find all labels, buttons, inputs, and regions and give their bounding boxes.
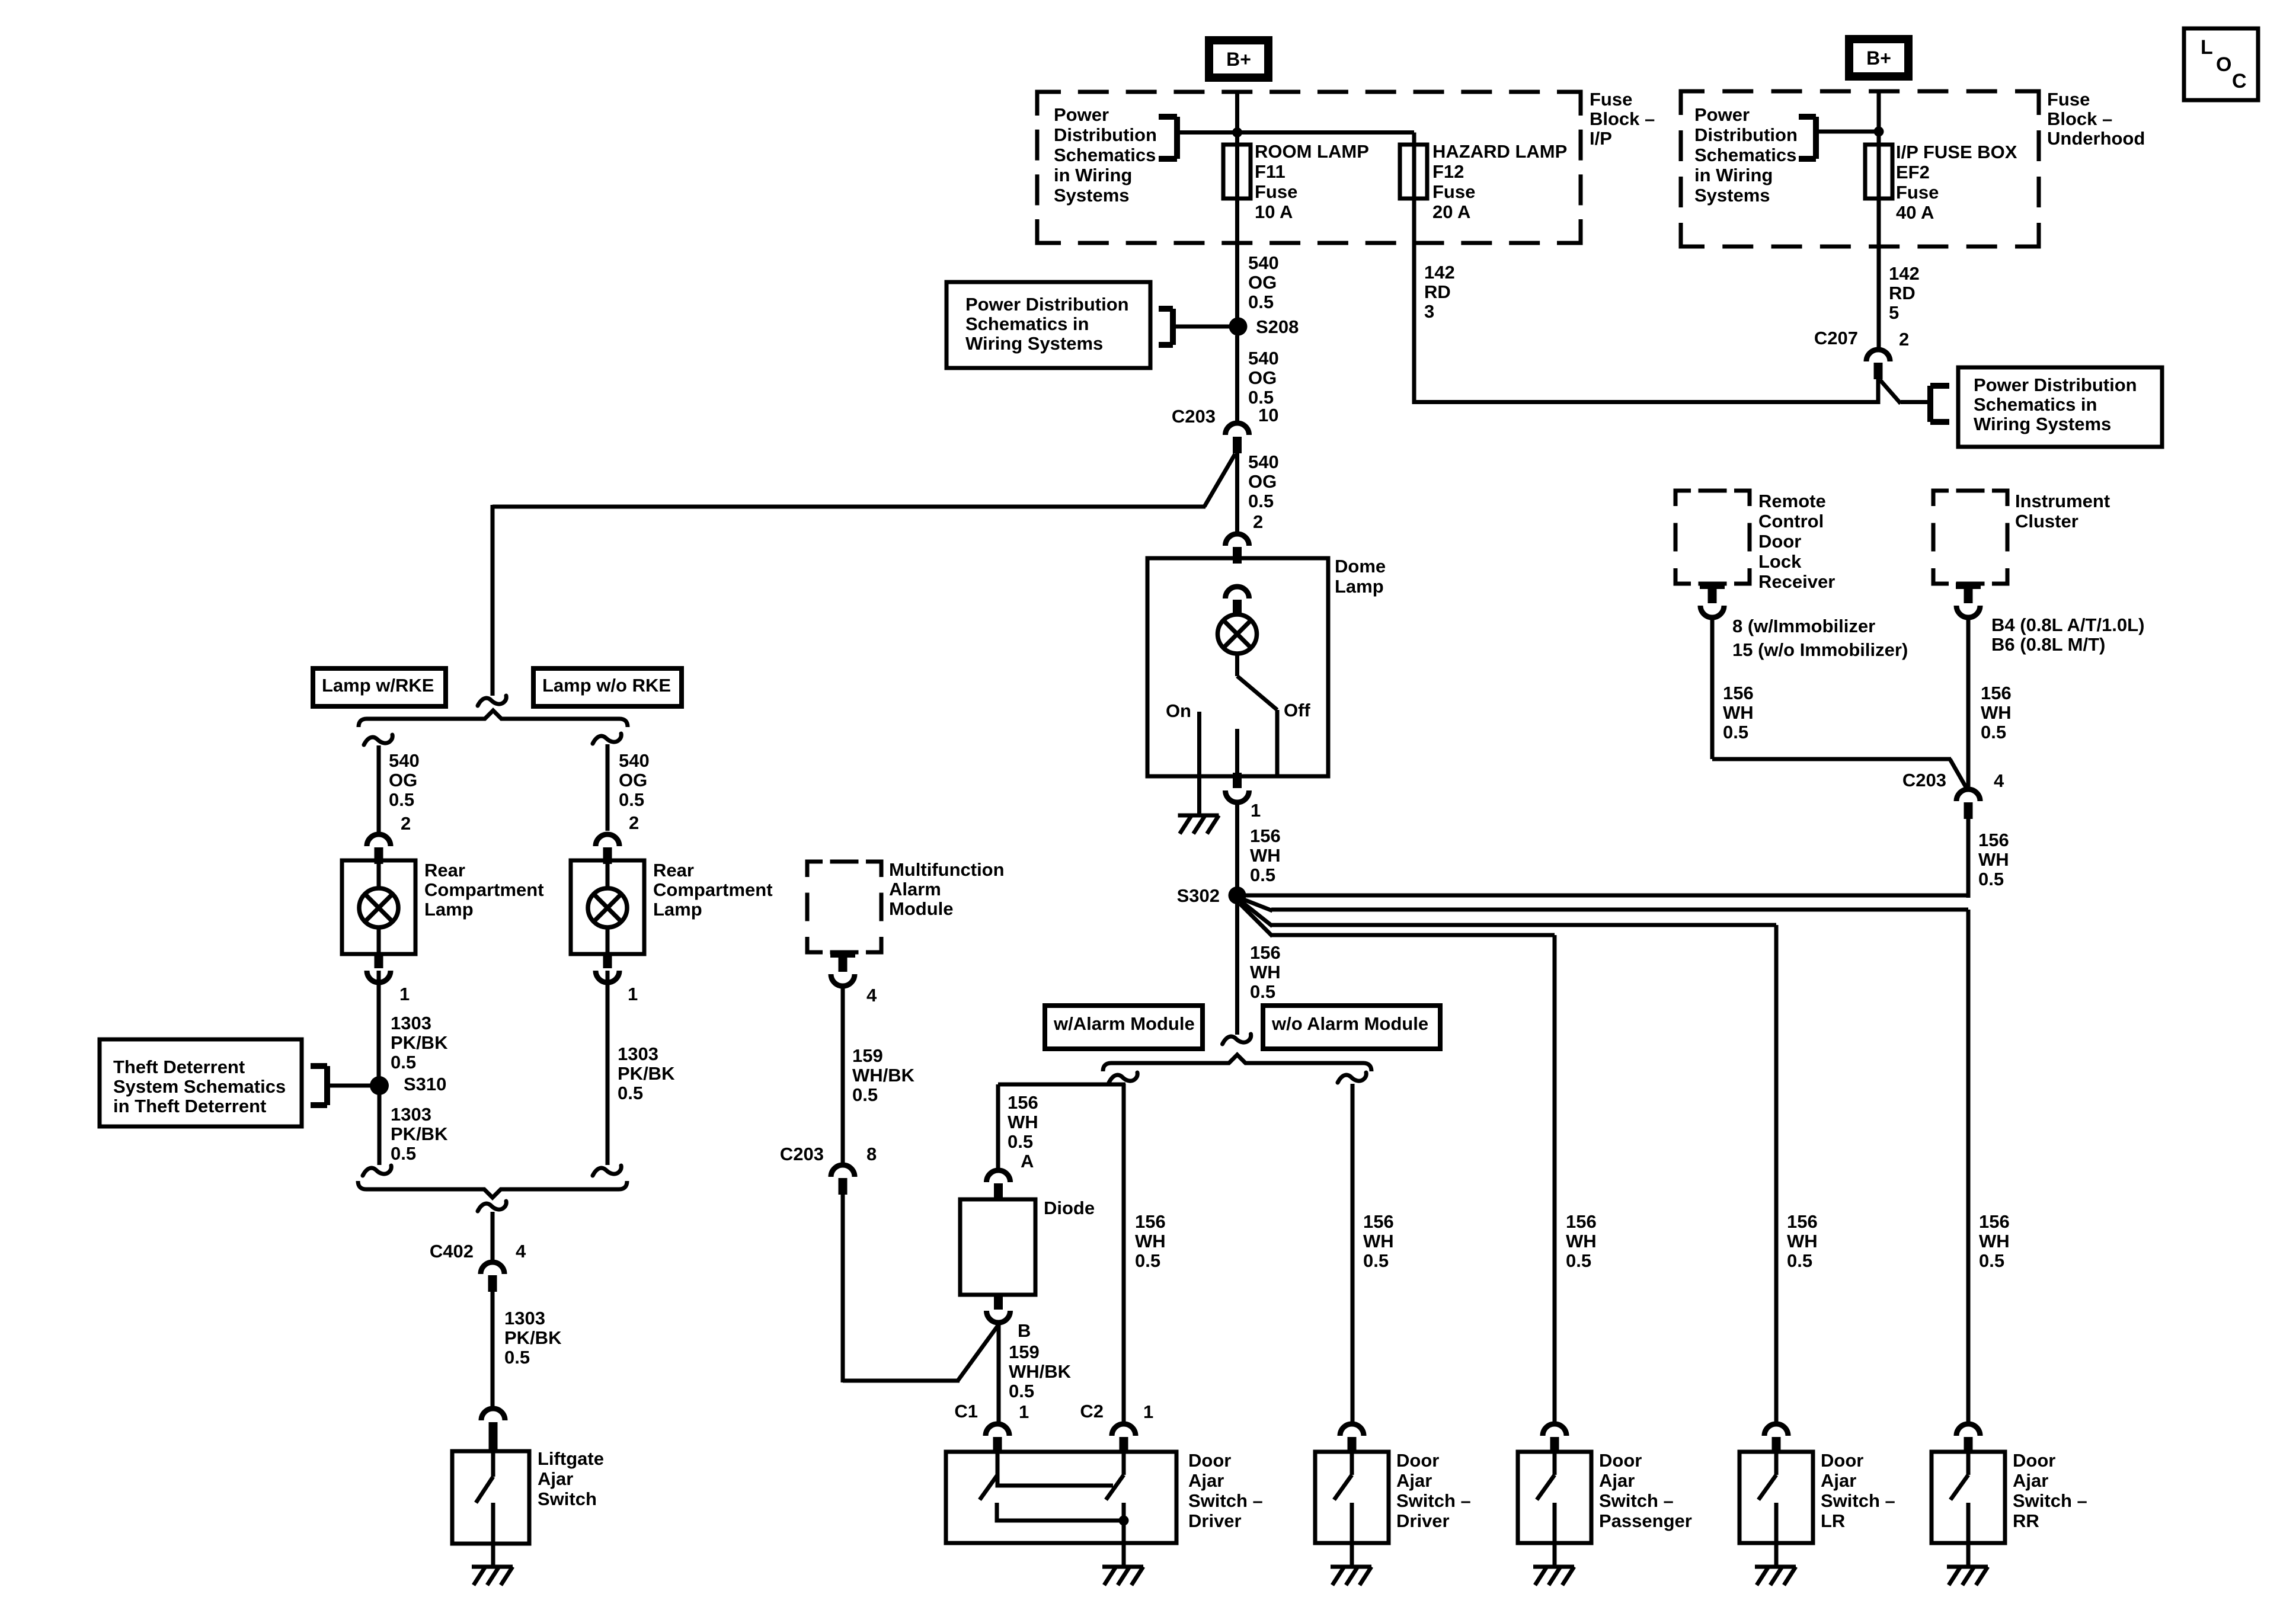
svg-text:On: On xyxy=(1166,700,1191,721)
svg-text:C2: C2 xyxy=(1080,1401,1104,1422)
option split (liftgate feed) xyxy=(478,1201,506,1211)
svg-text:0.5: 0.5 xyxy=(1009,1381,1034,1401)
svg-text:Switch –: Switch – xyxy=(1396,1490,1471,1511)
door ajar switch - passenger xyxy=(1518,1450,1692,1543)
svg-text:156: 156 xyxy=(1135,1211,1166,1232)
label Fuse Block - Underhood xyxy=(2047,89,2145,149)
connector dome lamp pin 1 xyxy=(1226,773,1261,821)
svg-text:Switch: Switch xyxy=(538,1489,597,1509)
dome lamp box xyxy=(1147,556,1386,776)
svg-text:WH: WH xyxy=(1981,702,2012,723)
svg-text:WH: WH xyxy=(1250,845,1281,866)
svg-text:WH: WH xyxy=(1978,849,2009,870)
svg-text:Cluster: Cluster xyxy=(2015,511,2078,532)
svg-text:B+: B+ xyxy=(1226,49,1251,70)
svg-text:159: 159 xyxy=(852,1045,883,1066)
option split (w/RKE leg) xyxy=(364,735,392,745)
svg-text:S208: S208 xyxy=(1256,316,1299,337)
svg-text:RD: RD xyxy=(1424,281,1451,302)
wire 540 OG 0.5 (w/o RKE lamp) xyxy=(607,744,650,833)
connector C203 pin 4 xyxy=(1902,770,2004,819)
note: power distribution schematics (underhood) xyxy=(1694,104,1816,206)
svg-text:0.5: 0.5 xyxy=(1008,1131,1033,1152)
door ajar switch - RR xyxy=(1932,1450,2087,1543)
wire to C402 xyxy=(491,1212,495,1261)
svg-text:1: 1 xyxy=(1143,1401,1153,1422)
ground (driver (w/o alarm)) xyxy=(1331,1543,1371,1585)
connector rear lamp 1 pin 2 xyxy=(367,834,391,864)
wire 1303 PK/BK 0.5 (lamp2 down) xyxy=(607,971,675,1165)
LOC legend box xyxy=(2184,28,2258,100)
connector IC pin B4/B6 xyxy=(1956,582,2144,655)
svg-text:WH: WH xyxy=(1979,1231,2010,1251)
svg-text:159: 159 xyxy=(1009,1342,1040,1362)
wire 156 WH 0.5 (RCDLR to C203) xyxy=(1712,620,1966,788)
svg-text:OG: OG xyxy=(1248,471,1277,492)
svg-text:0.5: 0.5 xyxy=(1248,491,1274,511)
svg-text:Lamp w/o RKE: Lamp w/o RKE xyxy=(542,675,671,696)
svg-text:Control: Control xyxy=(1758,511,1824,532)
svg-text:Fuse: Fuse xyxy=(1590,89,1632,110)
ground (liftgate switch) xyxy=(472,1544,513,1585)
door ajar switch - driver (w/o alarm) xyxy=(1315,1450,1471,1543)
power symbol B+ (fuse block I/P feed) xyxy=(1209,40,1268,78)
svg-text:Door: Door xyxy=(1396,1450,1439,1471)
svg-text:Driver: Driver xyxy=(1396,1510,1450,1531)
svg-text:0.5: 0.5 xyxy=(1981,722,2006,742)
svg-text:Schematics: Schematics xyxy=(1054,145,1156,165)
option split symbol (alarm) xyxy=(1223,1034,1251,1044)
power symbol B+ (underhood feed) xyxy=(1849,39,1908,76)
svg-text:C203: C203 xyxy=(1902,770,1946,790)
svg-text:B4 (0.8L A/T/1.0L): B4 (0.8L A/T/1.0L) xyxy=(1991,614,2144,635)
svg-text:2: 2 xyxy=(401,813,411,834)
svg-text:C402: C402 xyxy=(430,1241,474,1262)
splice S208 xyxy=(1229,316,1299,337)
svg-text:Systems: Systems xyxy=(1694,185,1770,206)
brace liftgate join xyxy=(358,1181,627,1198)
svg-text:RD: RD xyxy=(1889,283,1916,303)
note: power distribution schematics (I/P fuse block) xyxy=(1054,104,1177,206)
svg-text:in Theft Deterrent: in Theft Deterrent xyxy=(113,1096,266,1116)
svg-text:4: 4 xyxy=(866,985,877,1006)
svg-text:A: A xyxy=(1021,1151,1034,1172)
wire w/o alarm leg to driver switch (156 WH 0.5) xyxy=(1352,1084,1394,1423)
svg-text:1303: 1303 xyxy=(504,1308,545,1329)
svg-text:1: 1 xyxy=(399,984,410,1004)
svg-text:Power Distribution: Power Distribution xyxy=(1974,375,2137,395)
svg-text:Block –: Block – xyxy=(1590,108,1655,129)
svg-text:Switch –: Switch – xyxy=(1188,1490,1263,1511)
svg-text:0.5: 0.5 xyxy=(1250,981,1275,1002)
svg-text:Instrument: Instrument xyxy=(2015,491,2110,511)
svg-text:Dome: Dome xyxy=(1335,556,1386,577)
svg-text:HAZARD LAMP: HAZARD LAMP xyxy=(1432,141,1567,162)
diode xyxy=(960,1198,1095,1295)
svg-text:540: 540 xyxy=(1248,252,1279,273)
svg-text:156: 156 xyxy=(1566,1211,1597,1232)
svg-text:2: 2 xyxy=(629,812,639,833)
svg-text:156: 156 xyxy=(1723,683,1754,703)
svg-text:Switch –: Switch – xyxy=(1599,1490,1674,1511)
svg-text:156: 156 xyxy=(1250,942,1281,963)
fuse F11 ROOM LAMP 10A xyxy=(1223,141,1369,222)
svg-text:0.5: 0.5 xyxy=(1787,1250,1812,1271)
svg-text:1303: 1303 xyxy=(391,1013,431,1033)
svg-text:1303: 1303 xyxy=(391,1104,431,1125)
connector C402 pin 4 xyxy=(430,1241,526,1292)
svg-text:15 (w/o Immobilizer): 15 (w/o Immobilizer) xyxy=(1732,639,1908,660)
svg-text:WH: WH xyxy=(1363,1231,1394,1251)
svg-text:40 A: 40 A xyxy=(1896,202,1934,223)
svg-text:0.5: 0.5 xyxy=(1979,1250,2004,1271)
svg-text:0.5: 0.5 xyxy=(1363,1250,1389,1271)
svg-text:Ajar: Ajar xyxy=(538,1468,573,1489)
svg-text:OG: OG xyxy=(1248,367,1277,388)
svg-text:Lamp: Lamp xyxy=(1335,576,1384,597)
svg-text:2: 2 xyxy=(1899,329,1909,350)
connector rear lamp 2 pin 2 xyxy=(596,834,619,864)
svg-text:3: 3 xyxy=(1424,301,1434,322)
svg-text:OG: OG xyxy=(619,770,647,790)
svg-text:WH/BK: WH/BK xyxy=(852,1065,915,1086)
svg-text:Receiver: Receiver xyxy=(1758,571,1835,592)
svg-text:Liftgate: Liftgate xyxy=(538,1448,604,1469)
svg-text:Wiring Systems: Wiring Systems xyxy=(965,333,1103,354)
wire 159 WH/BK 0.5 (diode B to C1) xyxy=(999,1323,1072,1423)
svg-text:Distribution: Distribution xyxy=(1054,124,1157,145)
svg-text:Ajar: Ajar xyxy=(2013,1470,2048,1491)
wire 156 WH 0.5 (IC to C203) xyxy=(1968,620,2012,789)
connector passenger xyxy=(1543,1424,1566,1454)
ground (LR) xyxy=(1755,1543,1796,1585)
svg-text:Alarm: Alarm xyxy=(889,879,941,900)
ground (dome lamp On) xyxy=(1178,815,1219,834)
svg-text:WH: WH xyxy=(1008,1112,1038,1132)
connector LR xyxy=(1764,1424,1788,1454)
connector rear lamp 1 pin 1 xyxy=(367,953,410,1004)
connector rear lamp 2 pin 1 xyxy=(596,953,638,1004)
svg-text:Schematics in: Schematics in xyxy=(1974,394,2097,415)
wire 540 OG 0.5 (F11 to S208) xyxy=(1237,199,1279,318)
svg-text:WH: WH xyxy=(1723,702,1754,723)
svg-text:0.5: 0.5 xyxy=(1566,1250,1591,1271)
svg-text:1303: 1303 xyxy=(618,1044,658,1064)
svg-text:540: 540 xyxy=(619,750,650,771)
note: power distribution schematics (S208) xyxy=(946,282,1231,368)
ground (driver switch) xyxy=(1102,1543,1143,1585)
svg-text:Switch –: Switch – xyxy=(2013,1490,2087,1511)
multifunction alarm module dashed box xyxy=(807,859,1005,952)
label Lamp w/o RKE xyxy=(533,668,682,706)
svg-text:Switch –: Switch – xyxy=(1821,1490,1895,1511)
svg-text:Lock: Lock xyxy=(1758,551,1802,572)
svg-text:0.5: 0.5 xyxy=(1248,292,1274,312)
svg-text:Multifunction: Multifunction xyxy=(889,859,1005,880)
svg-text:Underhood: Underhood xyxy=(2047,128,2145,149)
connector alarm module pin 4 xyxy=(830,951,877,1006)
wire S302 to door ajar LR (156 WH 0.5) xyxy=(1241,901,1818,1423)
fuse block - I/P dashed box xyxy=(1037,92,1581,243)
svg-text:C207: C207 xyxy=(1814,328,1858,348)
svg-text:156: 156 xyxy=(1979,1211,2010,1232)
label Fuse Block - I/P xyxy=(1590,89,1655,149)
svg-text:2: 2 xyxy=(1253,511,1263,532)
svg-text:Distribution: Distribution xyxy=(1694,124,1798,145)
svg-text:System Schematics: System Schematics xyxy=(113,1076,286,1097)
fuse block - underhood dashed box xyxy=(1681,91,2039,247)
svg-text:10 A: 10 A xyxy=(1255,201,1293,222)
svg-text:I/P FUSE BOX: I/P FUSE BOX xyxy=(1896,142,2017,162)
svg-text:156: 156 xyxy=(1787,1211,1818,1232)
svg-text:Ajar: Ajar xyxy=(1821,1470,1856,1491)
svg-text:PK/BK: PK/BK xyxy=(391,1032,448,1053)
svg-text:B+: B+ xyxy=(1866,47,1891,69)
wire 540 OG 0.5 (w/RKE lamp) xyxy=(379,745,420,834)
wire S302 to C203-4 (156 WH 0.5) xyxy=(1243,822,1969,898)
option split (w/o RKE join) xyxy=(593,1166,621,1176)
dome lamp switch blade xyxy=(1237,676,1278,774)
svg-text:0.5: 0.5 xyxy=(619,789,644,810)
svg-text:Door: Door xyxy=(2013,1450,2055,1471)
svg-text:Passenger: Passenger xyxy=(1599,1510,1692,1531)
option split (w/RKE join) xyxy=(363,1166,391,1176)
svg-text:Schematics: Schematics xyxy=(1694,145,1796,165)
wire S302 to door ajar passenger (156 WH 0.5) xyxy=(1240,904,1597,1423)
label w/Alarm Module xyxy=(1045,1006,1203,1049)
svg-text:WH: WH xyxy=(1566,1231,1597,1251)
svg-text:Power: Power xyxy=(1054,104,1109,125)
svg-text:EF2: EF2 xyxy=(1896,162,1930,183)
connector RR xyxy=(1956,1424,1980,1454)
svg-text:C203: C203 xyxy=(780,1144,824,1164)
svg-text:PK/BK: PK/BK xyxy=(391,1124,448,1144)
svg-text:0.5: 0.5 xyxy=(1978,869,2004,889)
connector C2 pin 1 xyxy=(1080,1401,1153,1454)
svg-text:F11: F11 xyxy=(1255,161,1285,182)
svg-text:156: 156 xyxy=(1008,1092,1038,1113)
connector RCDLR pin 8/15 xyxy=(1700,582,1908,660)
svg-text:Module: Module xyxy=(889,898,954,919)
svg-text:Lamp: Lamp xyxy=(653,899,702,920)
svg-text:0.5: 0.5 xyxy=(852,1084,878,1105)
svg-text:RR: RR xyxy=(2013,1510,2039,1531)
svg-text:0.5: 0.5 xyxy=(618,1083,643,1103)
wire 142 RD 3 (F12 to C207) xyxy=(1414,199,1880,404)
node junction at EF2 feed xyxy=(1816,127,1884,137)
dome lamp center terminal xyxy=(1235,729,1239,775)
wire B+ to fuse EF2 xyxy=(1877,90,1881,146)
svg-text:Ajar: Ajar xyxy=(1599,1470,1635,1491)
svg-text:Door: Door xyxy=(1599,1450,1642,1471)
svg-text:OG: OG xyxy=(1248,272,1277,293)
svg-text:540: 540 xyxy=(389,750,420,771)
svg-text:Wiring Systems: Wiring Systems xyxy=(1974,414,2111,434)
svg-text:0.5: 0.5 xyxy=(391,1052,416,1073)
fuse F12 HAZARD LAMP 20A xyxy=(1400,133,1567,223)
svg-text:156: 156 xyxy=(1978,830,2009,850)
svg-text:B6 (0.8L M/T): B6 (0.8L M/T) xyxy=(1991,634,2105,655)
wire feed to hazard fuse F12 xyxy=(1177,130,1414,135)
rear compartment lamp (w/o RKE) xyxy=(571,860,773,954)
connector C203 pin 8 xyxy=(780,1144,877,1195)
svg-text:WH: WH xyxy=(1250,962,1281,982)
svg-text:Fuse: Fuse xyxy=(1432,181,1475,202)
wire C203-8 to diode branch xyxy=(841,1195,845,1382)
svg-text:in Wiring: in Wiring xyxy=(1054,165,1132,185)
connector C203 pin 10 xyxy=(1172,405,1279,453)
fuse EF2 I/P FUSE BOX 40A xyxy=(1865,142,2017,223)
svg-text:10: 10 xyxy=(1258,405,1278,425)
svg-text:Remote: Remote xyxy=(1758,491,1826,511)
svg-text:Lamp w/RKE: Lamp w/RKE xyxy=(322,675,434,696)
connector C1 pin 1 xyxy=(954,1401,1029,1454)
svg-text:0.5: 0.5 xyxy=(1723,722,1748,742)
label w/o Alarm Module xyxy=(1263,1006,1440,1049)
option split (w/o RKE leg) xyxy=(593,734,621,744)
wire 142 RD 5 (EF2 down) xyxy=(1879,199,1920,348)
dome lamp internal connector xyxy=(1226,587,1249,616)
svg-text:Rear: Rear xyxy=(424,860,465,881)
svg-text:Compartment: Compartment xyxy=(653,879,773,900)
svg-text:Lamp: Lamp xyxy=(424,899,474,920)
svg-text:Driver: Driver xyxy=(1188,1510,1242,1531)
wire 1303 PK/BK 0.5 (C402 to liftgate) xyxy=(493,1292,562,1407)
svg-text:Door: Door xyxy=(1758,531,1801,552)
svg-text:Rear: Rear xyxy=(653,860,694,881)
brace lamp RKE option xyxy=(359,710,628,727)
svg-text:Off: Off xyxy=(1284,700,1310,721)
wire S302 to door ajar RR (156 WH 0.5) xyxy=(1242,899,2010,1423)
svg-text:Ajar: Ajar xyxy=(1396,1470,1432,1491)
door ajar switch - driver (w/alarm module) xyxy=(946,1450,1263,1543)
svg-text:156: 156 xyxy=(1363,1211,1394,1232)
svg-text:1: 1 xyxy=(1019,1401,1029,1422)
svg-text:0.5: 0.5 xyxy=(1135,1250,1160,1271)
svg-text:156: 156 xyxy=(1250,825,1281,846)
svg-text:ROOM LAMP: ROOM LAMP xyxy=(1255,141,1369,162)
svg-text:20 A: 20 A xyxy=(1432,201,1470,222)
connector diode pin B xyxy=(987,1294,1031,1341)
svg-text:Door: Door xyxy=(1821,1450,1863,1471)
label Lamp w/RKE xyxy=(313,668,446,706)
svg-text:S310: S310 xyxy=(404,1074,446,1094)
svg-text:Systems: Systems xyxy=(1054,185,1130,206)
connector driver (w/o alarm) xyxy=(1340,1424,1364,1454)
door ajar switch - LR xyxy=(1739,1450,1895,1543)
wire 156 WH 0.5 (dome to S302) xyxy=(1237,804,1281,888)
option split (rear lamp feed) xyxy=(478,696,506,706)
wire 156 WH 0.5 (S302 down) xyxy=(1237,903,1281,1035)
rear compartment lamp (w/RKE) xyxy=(342,860,544,954)
wire w/alarm leg to C2 (156 WH 0.5) xyxy=(1124,1084,1166,1423)
svg-text:C203: C203 xyxy=(1172,406,1216,427)
wire 540 OG 0.5 (C203 to dome lamp) xyxy=(1237,452,1279,532)
wire 1303 PK/BK 0.5 (lamp1 to S310) xyxy=(379,971,448,1077)
connector C207 pin 2 xyxy=(1814,328,1909,404)
ground (passenger) xyxy=(1533,1543,1574,1585)
svg-text:0.5: 0.5 xyxy=(504,1347,530,1368)
option split (w/alarm leg) xyxy=(1109,1073,1137,1083)
node junction at F11 feed xyxy=(1232,127,1242,137)
svg-text:PK/BK: PK/BK xyxy=(618,1063,675,1084)
wire diode B to alarm module branch xyxy=(843,1324,999,1381)
instrument cluster dashed box xyxy=(1933,491,2110,584)
svg-text:I/P: I/P xyxy=(1590,128,1612,149)
svg-text:L: L xyxy=(2201,36,2213,59)
wire branch to rear lamps (diagonal + horizontal) xyxy=(493,454,1235,696)
svg-text:C1: C1 xyxy=(954,1401,978,1422)
svg-text:in Wiring: in Wiring xyxy=(1694,165,1773,185)
svg-text:OG: OG xyxy=(389,770,417,790)
svg-text:S302: S302 xyxy=(1177,885,1220,906)
svg-text:Ajar: Ajar xyxy=(1188,1470,1224,1491)
wire 540 OG 0.5 (S208 to C203) xyxy=(1237,335,1279,422)
wire branch to diode (156 WH 0.5 A) xyxy=(998,1084,1125,1172)
svg-text:Schematics in: Schematics in xyxy=(965,313,1089,334)
option split (w/o alarm leg) xyxy=(1338,1073,1366,1083)
svg-text:Door: Door xyxy=(1188,1450,1231,1471)
svg-text:Fuse: Fuse xyxy=(2047,89,2090,110)
liftgate ajar switch xyxy=(452,1448,604,1544)
svg-text:540: 540 xyxy=(1248,348,1279,369)
svg-text:8 (w/Immobilizer: 8 (w/Immobilizer xyxy=(1732,616,1875,636)
brace alarm option xyxy=(1103,1055,1371,1071)
svg-text:0.5: 0.5 xyxy=(389,789,414,810)
connector liftgate switch xyxy=(481,1409,505,1451)
svg-text:Block –: Block – xyxy=(2047,108,2112,129)
svg-text:156: 156 xyxy=(1981,683,2012,703)
svg-text:5: 5 xyxy=(1889,302,1899,323)
svg-text:0.5: 0.5 xyxy=(1250,865,1275,885)
link C207 to power distribution note xyxy=(1880,380,1949,422)
svg-text:C: C xyxy=(2232,70,2247,92)
wire 156 WH 0.5 (C203-4 to S302 run) xyxy=(1968,819,2009,897)
svg-text:WH: WH xyxy=(1787,1231,1818,1251)
wire B+ to fuse F11 xyxy=(1235,90,1239,146)
connector diode pin A xyxy=(987,1170,1011,1200)
svg-text:Fuse: Fuse xyxy=(1896,182,1939,203)
svg-text:Diode: Diode xyxy=(1044,1198,1095,1218)
ground (RR) xyxy=(1947,1543,1988,1585)
svg-text:LR: LR xyxy=(1821,1510,1845,1531)
svg-text:F12: F12 xyxy=(1432,161,1464,182)
svg-text:540: 540 xyxy=(1248,452,1279,472)
remote control door lock receiver dashed box xyxy=(1675,491,1835,592)
note: theft deterrent schematics xyxy=(100,1039,371,1126)
svg-text:O: O xyxy=(2216,53,2231,76)
svg-text:w/o Alarm Module: w/o Alarm Module xyxy=(1271,1013,1428,1034)
svg-text:8: 8 xyxy=(866,1144,877,1164)
svg-text:w/Alarm Module: w/Alarm Module xyxy=(1053,1013,1195,1034)
svg-text:Theft Deterrent: Theft Deterrent xyxy=(113,1057,245,1077)
dome lamp Off label xyxy=(1284,700,1310,721)
connector dome lamp pin 2 xyxy=(1226,534,1249,564)
svg-text:Power: Power xyxy=(1694,104,1750,125)
svg-text:0.5: 0.5 xyxy=(391,1143,416,1164)
svg-text:WH/BK: WH/BK xyxy=(1009,1361,1072,1382)
svg-text:B: B xyxy=(1018,1320,1031,1341)
svg-text:WH: WH xyxy=(1135,1231,1166,1251)
svg-text:4: 4 xyxy=(516,1241,526,1262)
svg-text:PK/BK: PK/BK xyxy=(504,1327,562,1348)
splice S302 xyxy=(1177,885,1246,906)
wire 159 WH/BK 0.5 (alarm to C203) xyxy=(843,985,915,1163)
svg-text:142: 142 xyxy=(1889,263,1920,284)
dome lamp On terminal xyxy=(1166,700,1200,814)
note: power distribution schematics (C207) xyxy=(1958,367,2162,447)
splice S310 xyxy=(370,1074,446,1095)
